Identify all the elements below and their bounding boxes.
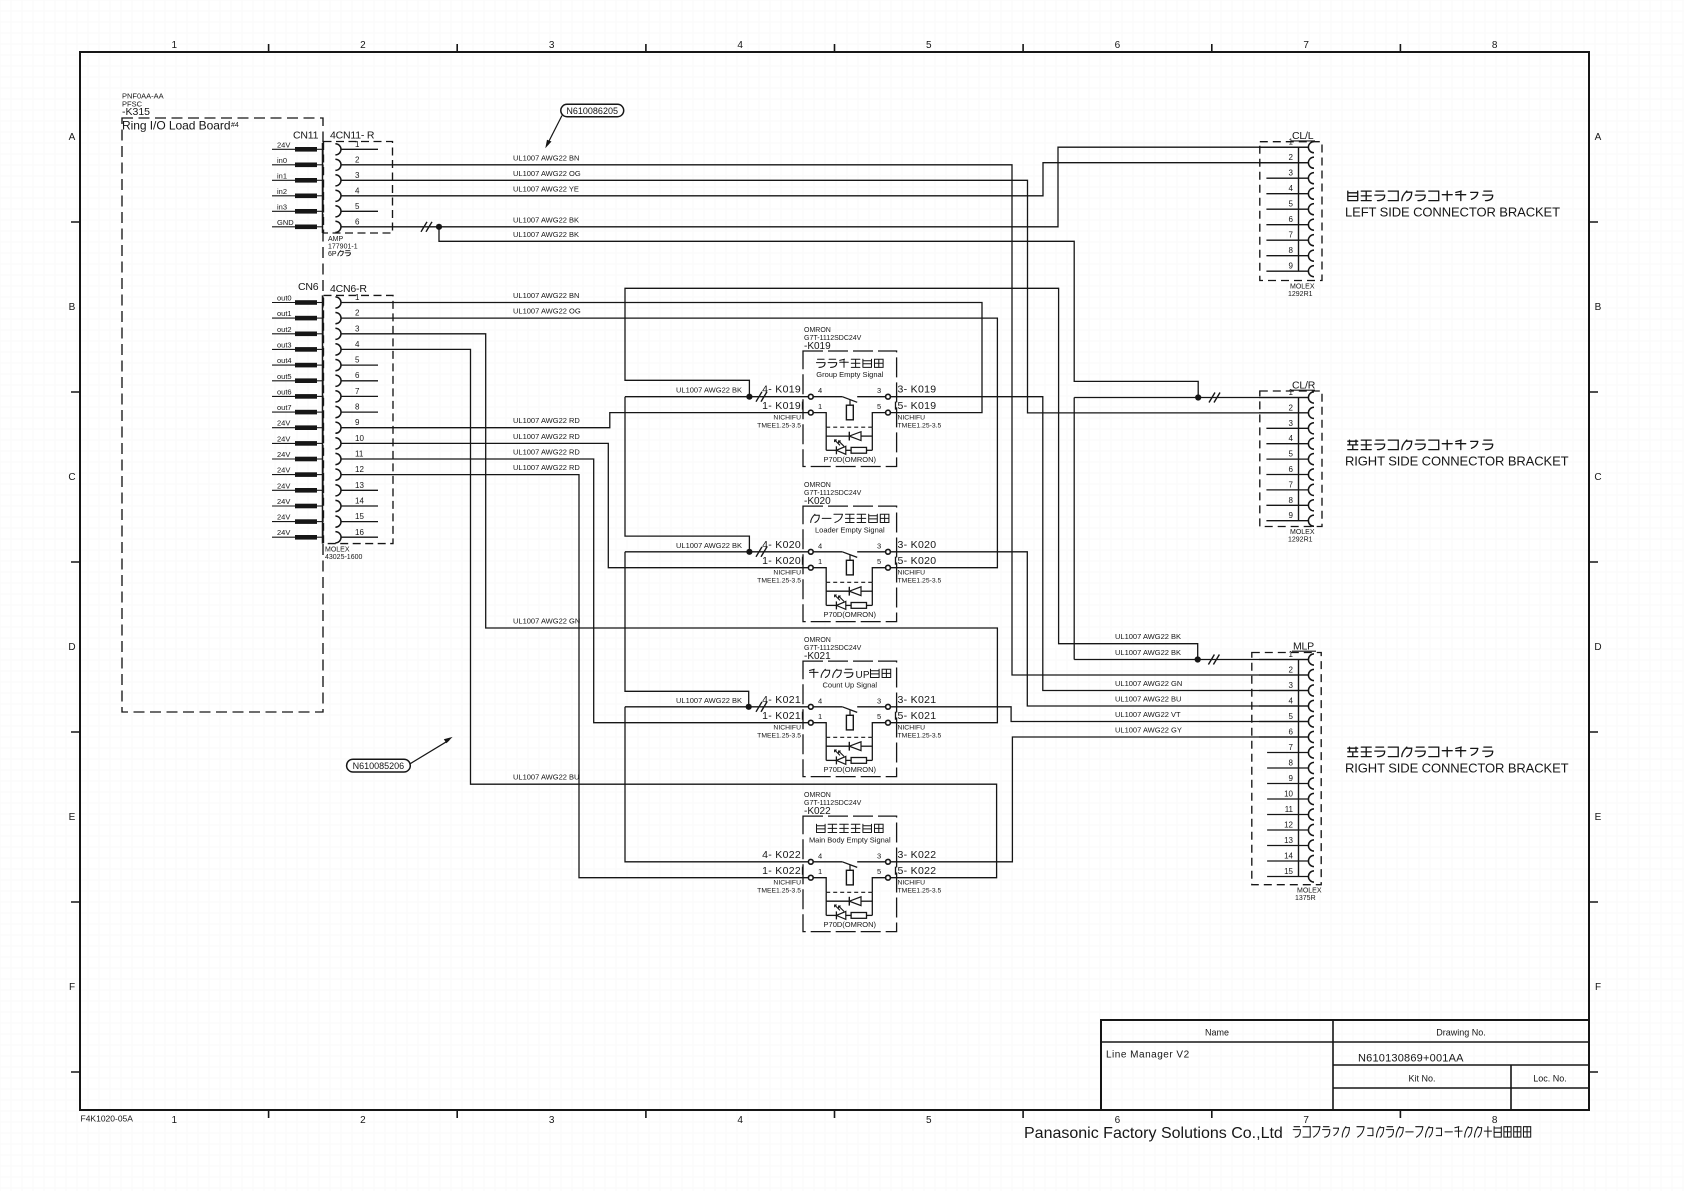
svg-text:4: 4 (1289, 184, 1294, 193)
svg-text:Line Manager V2: Line Manager V2 (1106, 1050, 1190, 1061)
svg-text:in3: in3 (277, 202, 287, 211)
svg-text:RIGHT SIDE CONNECTOR BRACKET: RIGHT SIDE CONNECTOR BRACKET (1345, 761, 1569, 776)
svg-text:24V: 24V (277, 497, 290, 506)
svg-text:1- K020: 1- K020 (762, 555, 801, 567)
svg-text:11: 11 (355, 450, 364, 459)
svg-text:24V: 24V (277, 528, 290, 537)
svg-text:TMEE1.25-3.5: TMEE1.25-3.5 (898, 423, 942, 430)
svg-text:N610130869+001AA: N610130869+001AA (1358, 1053, 1464, 1065)
svg-text:1: 1 (818, 402, 822, 411)
svg-text:5- K020: 5- K020 (898, 555, 937, 567)
svg-text:12: 12 (1284, 821, 1293, 830)
svg-text:P70D(OMRON): P70D(OMRON) (824, 920, 877, 929)
svg-text:UL1007 AWG22 BK: UL1007 AWG22 BK (676, 386, 742, 395)
svg-text:UL1007 AWG22 OG: UL1007 AWG22 OG (513, 169, 581, 178)
connector MLP (MOLEX 1375R) (1252, 640, 1322, 902)
svg-text:MOLEX: MOLEX (1297, 888, 1322, 895)
svg-text:in2: in2 (277, 187, 287, 196)
svg-text:7: 7 (355, 387, 360, 396)
connector CL/R (MOLEX 1292R1) (1259, 379, 1322, 543)
svg-text:UL1007 AWG22 BK: UL1007 AWG22 BK (676, 541, 742, 550)
svg-text:7: 7 (1289, 231, 1294, 240)
svg-text:5: 5 (926, 1115, 932, 1126)
svg-text:UL1007 AWG22 BK: UL1007 AWG22 BK (676, 696, 742, 705)
svg-text:8: 8 (1289, 496, 1294, 505)
svg-text:8: 8 (1289, 246, 1294, 255)
svg-text:10: 10 (355, 434, 364, 443)
svg-text:3: 3 (549, 1115, 555, 1126)
junction at CN11 BK branch (436, 224, 442, 230)
svg-text:5: 5 (355, 356, 360, 365)
svg-text:1: 1 (818, 712, 822, 721)
svg-text:7: 7 (1303, 1115, 1309, 1126)
svg-text:3: 3 (877, 541, 881, 550)
svg-text:N610085206: N610085206 (353, 761, 405, 771)
wire 3-K019 to MLP pin3 (UL1007 AWG22 GN) (890, 397, 1309, 691)
svg-text:Count Up Signal: Count Up Signal (822, 680, 877, 689)
svg-text:11: 11 (1285, 805, 1294, 814)
svg-text:NICHIFU: NICHIFU (773, 880, 801, 887)
svg-text:1: 1 (1289, 388, 1294, 397)
svg-text:OMRON: OMRON (804, 792, 831, 799)
wire BK branch: junction to CL/R pin1 via jog (UL1007 AWG22 BK) (439, 227, 1198, 398)
svg-text:4: 4 (818, 696, 822, 705)
svg-text:4CN6-R: 4CN6-R (330, 283, 367, 295)
svg-text:4- K020: 4- K020 (762, 539, 801, 551)
wire BK chain K020 to K021 (625, 552, 749, 707)
svg-text:5- K021: 5- K021 (898, 710, 937, 722)
svg-text:out6: out6 (277, 387, 292, 396)
svg-text:14: 14 (1284, 852, 1293, 861)
svg-text:7: 7 (1289, 743, 1294, 752)
svg-text:8: 8 (1289, 759, 1294, 768)
wire RD: CN6 pin12 24V to K022 pin1 (UL1007 AWG22 RD) (341, 463, 808, 878)
balloon note N610086205 (545, 104, 623, 148)
svg-text:1- K019: 1- K019 (762, 400, 801, 412)
wire BK jog: MLP junction up to relay K019 pin4 net (UL1007 AWG22 BK) (625, 288, 1198, 659)
svg-text:24V: 24V (277, 513, 290, 522)
svg-text:1: 1 (1289, 138, 1294, 147)
svg-text:E: E (69, 812, 76, 823)
wire BU: CN6 pin4 out3 to K022 pin5 (UL1007 AWG22 BU) (341, 349, 997, 877)
svg-text:out1: out1 (277, 309, 292, 318)
relay K021 (OMRON G7T-1112SDC24V) (676, 637, 942, 777)
svg-text:3- K019: 3- K019 (898, 384, 937, 396)
svg-text:E: E (1595, 812, 1602, 823)
svg-text:F: F (1595, 982, 1601, 993)
svg-text:out7: out7 (277, 403, 292, 412)
svg-text:CL/R: CL/R (1292, 379, 1316, 391)
wire 3-K021 to MLP pin5 (UL1007 AWG22 VT) (890, 707, 1309, 722)
svg-text:4: 4 (1289, 697, 1294, 706)
svg-text:out0: out0 (277, 294, 292, 303)
svg-text:4: 4 (818, 851, 822, 860)
svg-text:UL1007 AWG22 RD: UL1007 AWG22 RD (513, 448, 580, 457)
svg-text:2: 2 (1289, 666, 1294, 675)
svg-text:24V: 24V (277, 450, 290, 459)
svg-text:4CN11- R: 4CN11- R (330, 130, 375, 142)
svg-text:6: 6 (1289, 215, 1294, 224)
svg-text:D: D (68, 642, 75, 653)
wire link CL/R pin1 to MLP pin1 (1073, 398, 1075, 660)
svg-text:LEFT SIDE CONNECTOR BRACKET: LEFT SIDE CONNECTOR BRACKET (1345, 205, 1560, 220)
svg-text:3: 3 (549, 40, 555, 51)
svg-text:8: 8 (355, 403, 360, 412)
svg-text:6: 6 (1115, 40, 1121, 51)
svg-text:6: 6 (355, 371, 360, 380)
wire RD: CN6 pin9 24V to K019 pin1 (UL1007 AWG22 RD) (341, 413, 808, 428)
svg-text:4: 4 (737, 40, 743, 51)
svg-text:TMEE1.25-3.5: TMEE1.25-3.5 (757, 733, 801, 740)
svg-text:GND: GND (277, 218, 294, 227)
wire RD: CN6 pin11 24V to K021 pin1 (UL1007 AWG22 RD) (341, 448, 808, 723)
svg-text:2: 2 (355, 155, 360, 164)
svg-text:43025-1600: 43025-1600 (325, 554, 362, 561)
svg-text:in1: in1 (277, 171, 287, 180)
svg-text:#4: #4 (231, 122, 239, 129)
svg-text:1: 1 (818, 867, 822, 876)
svg-text:CL/L: CL/L (1292, 130, 1314, 142)
svg-text:Loader Empty Signal: Loader Empty Signal (815, 525, 885, 534)
junction on MLP pin1 wire (1195, 656, 1201, 662)
svg-text:24V: 24V (277, 481, 290, 490)
svg-text:8: 8 (1492, 40, 1498, 51)
svg-text:1: 1 (355, 293, 360, 302)
svg-text:UL1007 AWG22 GY: UL1007 AWG22 GY (1115, 726, 1182, 735)
svg-text:3- K020: 3- K020 (898, 539, 937, 551)
svg-text:UL1007 AWG22 BU: UL1007 AWG22 BU (513, 773, 579, 782)
svg-text:8: 8 (1492, 1115, 1498, 1126)
junction on 4-K021 wire (746, 704, 752, 710)
svg-text:CN6: CN6 (298, 281, 319, 293)
svg-text:4: 4 (1289, 434, 1294, 443)
svg-text:C: C (68, 472, 75, 483)
svg-text:Group Empty Signal: Group Empty Signal (816, 370, 883, 379)
svg-text:13: 13 (355, 481, 364, 490)
svg-text:16: 16 (355, 528, 364, 537)
svg-text:in0: in0 (277, 156, 287, 165)
svg-text:3: 3 (877, 851, 881, 860)
svg-text:4- K022: 4- K022 (762, 849, 801, 861)
svg-text:NICHIFU: NICHIFU (898, 725, 926, 732)
wire BK chain K019 to K020 (625, 397, 749, 552)
svg-text:TMEE1.25-3.5: TMEE1.25-3.5 (757, 423, 801, 430)
connector 4CN11-R (AMP 177901-1 6P female) (324, 130, 393, 258)
svg-text:Drawing No.: Drawing No. (1436, 1028, 1486, 1038)
svg-text:2: 2 (360, 1115, 366, 1126)
svg-text:NICHIFU: NICHIFU (898, 415, 926, 422)
svg-text:1375R: 1375R (1295, 895, 1316, 902)
junction on 4-K019 wire (746, 394, 752, 400)
svg-text:10: 10 (1284, 790, 1293, 799)
label RIGHT SIDE CONNECTOR BRACKET (CL/R) (1345, 440, 1569, 468)
svg-text:AMP: AMP (328, 236, 344, 243)
svg-text:NICHIFU: NICHIFU (773, 570, 801, 577)
svg-text:TMEE1.25-3.5: TMEE1.25-3.5 (898, 888, 942, 895)
svg-text:TMEE1.25-3.5: TMEE1.25-3.5 (757, 578, 801, 585)
svg-text:1: 1 (818, 557, 822, 566)
svg-text:9: 9 (1289, 262, 1294, 271)
wire 4-K019 contact common (625, 392, 808, 402)
wire BN: CN6 pin1 out0 to K019 pin5 (UL1007 AWG22 BN) (341, 291, 982, 413)
label RIGHT SIDE CONNECTOR BRACKET (MLP) (1345, 747, 1569, 775)
svg-text:24V: 24V (277, 466, 290, 475)
label company Panasonic Factory Solutions (1024, 1125, 1531, 1142)
svg-text:1- K022: 1- K022 (762, 865, 801, 877)
svg-text:UL1007 AWG22 RD: UL1007 AWG22 RD (513, 432, 580, 441)
wire 4-K020 contact common (625, 547, 808, 557)
svg-text:C: C (1594, 472, 1601, 483)
svg-text:Name: Name (1205, 1028, 1229, 1038)
svg-text:5: 5 (877, 712, 881, 721)
svg-text:5- K022: 5- K022 (898, 865, 937, 877)
svg-text:F4K1020-05A: F4K1020-05A (81, 1114, 134, 1124)
svg-text:1292R1: 1292R1 (1288, 537, 1313, 544)
svg-text:24V: 24V (277, 140, 290, 149)
board K315 Ring I/O Load Board (PNF0AA-AA PFSC) (122, 92, 323, 713)
svg-text:N610086205: N610086205 (566, 106, 618, 116)
relay K019 (OMRON G7T-1112SDC24V) (676, 327, 942, 467)
svg-text:24V: 24V (277, 419, 290, 428)
svg-text:4: 4 (737, 1115, 743, 1126)
svg-text:Loc. No.: Loc. No. (1533, 1074, 1567, 1084)
svg-text:3: 3 (1289, 169, 1294, 178)
svg-text:OMRON: OMRON (804, 482, 831, 489)
svg-text:5: 5 (1289, 200, 1294, 209)
svg-text:7: 7 (1289, 480, 1294, 489)
svg-text:UL1007 AWG22 GN: UL1007 AWG22 GN (1115, 679, 1182, 688)
svg-text:MOLEX: MOLEX (325, 547, 350, 554)
wire OG: CN6 pin2 out1 to K020 pin5 (UL1007 AWG22 OG) (341, 307, 997, 568)
svg-text:MOLEX: MOLEX (1290, 284, 1315, 291)
svg-text:3- K021: 3- K021 (898, 694, 937, 706)
svg-text:NICHIFU: NICHIFU (898, 880, 926, 887)
svg-text:2: 2 (1289, 403, 1294, 412)
svg-text:UL1007 AWG22 BK: UL1007 AWG22 BK (513, 230, 579, 239)
relay K022 (OMRON G7T-1112SDC24V) (757, 792, 941, 932)
svg-text:14: 14 (355, 497, 364, 506)
svg-text:9: 9 (1289, 774, 1294, 783)
svg-text:3- K022: 3- K022 (898, 849, 937, 861)
wire 3-K022 to MLP pin6 (UL1007 AWG22 GY) (890, 726, 1309, 862)
svg-text:3: 3 (355, 171, 360, 180)
connector CN11 (load board header) (272, 130, 323, 233)
svg-text:5: 5 (1289, 712, 1294, 721)
svg-text:5: 5 (1289, 450, 1294, 459)
svg-text:out5: out5 (277, 372, 292, 381)
svg-text:F: F (69, 982, 75, 993)
svg-text:P70D(OMRON): P70D(OMRON) (824, 455, 877, 464)
svg-text:1: 1 (172, 40, 178, 51)
svg-text:UL1007 AWG22 BN: UL1007 AWG22 BN (513, 291, 579, 300)
svg-text:5- K019: 5- K019 (898, 400, 937, 412)
svg-text:MLP: MLP (1293, 640, 1314, 652)
svg-text:3: 3 (877, 386, 881, 395)
svg-text:A: A (1595, 132, 1602, 143)
junction on CL/R pin1 wire (1195, 394, 1201, 400)
svg-text:15: 15 (1284, 867, 1293, 876)
wire BK: CN11 pin6 GND to CL/L pin1 (UL1007 AWG22 BK) (341, 147, 1309, 232)
svg-text:-K315: -K315 (122, 106, 150, 118)
svg-text:NICHIFU: NICHIFU (773, 415, 801, 422)
svg-text:9: 9 (355, 418, 360, 427)
connector CL/L (MOLEX 1292R1) (1259, 130, 1322, 298)
svg-text:Panasonic Factory Solutions Co: Panasonic Factory Solutions Co.,Ltd (1024, 1125, 1283, 1142)
wire OG: CN11 pin3 to CL/R pin2 (UL1007 AWG22 OG) (341, 169, 1309, 413)
svg-text:7: 7 (1303, 40, 1309, 51)
svg-text:1: 1 (355, 140, 360, 149)
svg-text:1292R1: 1292R1 (1288, 291, 1313, 298)
svg-text:CN11: CN11 (293, 130, 319, 142)
svg-text:NICHIFU: NICHIFU (898, 570, 926, 577)
svg-text:UL1007 AWG22 BK: UL1007 AWG22 BK (513, 215, 579, 224)
svg-text:3: 3 (1289, 681, 1294, 690)
svg-text:3: 3 (355, 324, 360, 333)
svg-text:2: 2 (360, 40, 366, 51)
junction on 4-K020 wire (746, 549, 752, 555)
svg-text:OMRON: OMRON (804, 327, 831, 334)
svg-text:3: 3 (1289, 419, 1294, 428)
svg-text:4: 4 (818, 386, 822, 395)
wire GN: CN6 pin3 out2 to K021 pin5 (UL1007 AWG22 GN) (341, 334, 997, 723)
svg-text:Main Body Empty Signal: Main Body Empty Signal (809, 835, 891, 844)
svg-text:UL1007 AWG22 YE: UL1007 AWG22 YE (513, 184, 579, 193)
svg-text:UL1007 AWG22 RD: UL1007 AWG22 RD (513, 463, 580, 472)
svg-text:4: 4 (355, 340, 360, 349)
wire CL/R pin1 feed (UL1007 AWG22 BK) (1074, 393, 1309, 403)
svg-text:UL1007 AWG22 BK: UL1007 AWG22 BK (1115, 648, 1181, 657)
wire 4-K021 contact common (625, 702, 808, 712)
svg-text:A: A (69, 132, 76, 143)
svg-text:Ring I/O Load Board: Ring I/O Load Board (122, 119, 230, 133)
balloon note N610085206 (347, 737, 453, 772)
svg-text:5: 5 (926, 40, 932, 51)
svg-text:6P: 6P (328, 251, 337, 258)
svg-text:1- K021: 1- K021 (762, 710, 801, 722)
svg-text:Kit No.: Kit No. (1408, 1074, 1435, 1084)
svg-text:out3: out3 (277, 340, 292, 349)
svg-text:B: B (1595, 302, 1602, 313)
svg-text:TMEE1.25-3.5: TMEE1.25-3.5 (757, 888, 801, 895)
wire YE: CN11 pin4 to CL/L pin2 (UL1007 AWG22 YE) (341, 163, 1309, 196)
svg-text:5: 5 (877, 402, 881, 411)
svg-text:UL1007 AWG22 BK: UL1007 AWG22 BK (1115, 632, 1181, 641)
svg-text:OMRON: OMRON (804, 637, 831, 644)
svg-text:4: 4 (355, 186, 360, 195)
svg-text:UL1007 AWG22 BU: UL1007 AWG22 BU (1115, 695, 1181, 704)
connector CN6 (load board header) (272, 281, 323, 544)
svg-text:NICHIFU: NICHIFU (773, 725, 801, 732)
svg-text:4- K021: 4- K021 (762, 694, 801, 706)
svg-text:UL1007 AWG22 GN: UL1007 AWG22 GN (513, 617, 580, 626)
wire BK chain K021 to K022 pin4 (625, 707, 808, 862)
svg-text:5: 5 (355, 202, 360, 211)
svg-text:4: 4 (818, 541, 822, 550)
svg-text:177901-1: 177901-1 (328, 244, 358, 251)
wire 3-K020 to MLP pin4 (UL1007 AWG22 BU) (890, 552, 1309, 706)
label LEFT SIDE CONNECTOR BRACKET (1345, 191, 1560, 219)
svg-text:5: 5 (877, 557, 881, 566)
wire BN: CN11 pin2 to MLP pin2 (UL1007 AWG22 BN) (341, 153, 1309, 675)
svg-text:UP: UP (856, 670, 870, 681)
svg-text:1: 1 (172, 1115, 178, 1126)
svg-text:1: 1 (1289, 650, 1294, 659)
svg-text:P70D(OMRON): P70D(OMRON) (824, 765, 877, 774)
svg-text:15: 15 (355, 512, 364, 521)
connector 4CN6-R (MOLEX 43025-1600) (324, 283, 394, 561)
svg-text:out2: out2 (277, 325, 292, 334)
svg-text:2: 2 (1289, 153, 1294, 162)
svg-text:TMEE1.25-3.5: TMEE1.25-3.5 (898, 733, 942, 740)
svg-text:B: B (69, 302, 76, 313)
svg-text:P70D(OMRON): P70D(OMRON) (824, 610, 877, 619)
svg-text:2: 2 (355, 309, 360, 318)
svg-text:TMEE1.25-3.5: TMEE1.25-3.5 (898, 578, 942, 585)
wire MLP pin1 feed (UL1007 AWG22 BK) (1074, 648, 1309, 665)
svg-text:MOLEX: MOLEX (1290, 529, 1315, 536)
svg-text:13: 13 (1284, 836, 1293, 845)
svg-text:out4: out4 (277, 356, 292, 365)
svg-text:24V: 24V (277, 434, 290, 443)
svg-text:D: D (1594, 642, 1601, 653)
svg-text:UL1007 AWG22 BN: UL1007 AWG22 BN (513, 153, 579, 162)
svg-text:RIGHT SIDE CONNECTOR BRACKET: RIGHT SIDE CONNECTOR BRACKET (1345, 454, 1569, 469)
svg-text:UL1007 AWG22 OG: UL1007 AWG22 OG (513, 307, 581, 316)
svg-text:UL1007 AWG22 RD: UL1007 AWG22 RD (513, 416, 580, 425)
svg-text:4- K019: 4- K019 (762, 384, 801, 396)
svg-text:6: 6 (1289, 728, 1294, 737)
svg-text:9: 9 (1289, 511, 1294, 520)
svg-text:3: 3 (877, 696, 881, 705)
wire RD: CN6 pin10 24V to K020 pin1 (UL1007 AWG22 RD) (341, 432, 808, 568)
svg-text:6: 6 (355, 217, 360, 226)
svg-text:5: 5 (877, 867, 881, 876)
svg-text:6: 6 (1289, 465, 1294, 474)
relay K020 (OMRON G7T-1112SDC24V) (676, 482, 942, 621)
svg-text:UL1007 AWG22 VT: UL1007 AWG22 VT (1115, 710, 1181, 719)
svg-text:12: 12 (355, 465, 364, 474)
title block (Name / Drawing No. / Kit No. / Loc. No.) (1101, 1020, 1589, 1110)
